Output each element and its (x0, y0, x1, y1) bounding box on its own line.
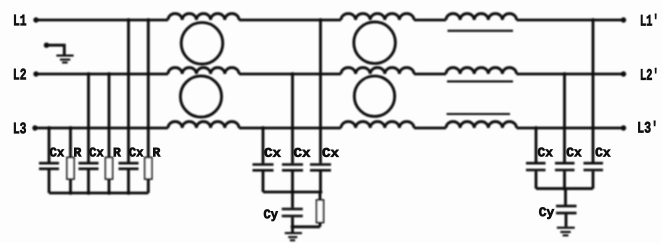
wire C4 dropper from L3 (262, 128, 265, 163)
junction dot right bus/Cy (563, 187, 567, 191)
junction dot L1/R3 (146, 18, 150, 22)
junction dot L2/C5 (291, 72, 295, 76)
wire R4 top stem (319, 192, 322, 200)
wire R1 dropper from L3 (69, 128, 72, 158)
capacitor C1 plates (39, 163, 59, 169)
wire C8 to right bus (563, 171, 566, 188)
resistor R1 body (67, 158, 74, 180)
wire L2 segment 2 (239, 73, 341, 76)
inductor choke1 L3 winding (168, 122, 239, 128)
junction dot mid ground (291, 225, 295, 229)
ground (input PE) bar 3 (62, 61, 68, 63)
capacitor C2 plates (79, 163, 99, 169)
wire L3 segment 4 (517, 127, 624, 130)
svg-text:Cx: Cx (293, 146, 310, 161)
wire C3 to bus (127, 170, 130, 193)
wire mid bus to Cy (291, 192, 294, 208)
wire C3 dropper from L1 (127, 20, 130, 162)
wire C4 to mid bus (262, 172, 265, 193)
junction dot bus/R1 (69, 191, 73, 195)
wire Cy to ground junction (middle) (291, 217, 294, 227)
ground (input PE) bar 1 (56, 55, 73, 57)
inductor L6 (L3 line) winding (446, 122, 517, 128)
ground (middle) bar 3 (290, 239, 295, 241)
wire C1 dropper from L3 (48, 128, 51, 162)
svg-text:L2': L2' (640, 67, 659, 85)
wire C2 to bus (87, 170, 90, 193)
resistor R3 body (145, 158, 152, 180)
wire C6 to mid bus (319, 172, 322, 193)
ground (input PE) dot (44, 43, 49, 48)
wire right bus (536, 187, 593, 190)
wire C7 dropper from L3 (535, 128, 538, 162)
wire C9 dropper from L1 (592, 20, 595, 162)
wire C6 dropper from L1 (319, 20, 322, 163)
wire C8 dropper from L2 (563, 74, 566, 162)
L1' terminal dot right (621, 17, 626, 22)
L2' terminal dot right (621, 71, 626, 76)
wire C5 dropper from L2 (291, 74, 294, 163)
wire mid bus (263, 191, 321, 194)
svg-text:R: R (152, 145, 160, 160)
ground (input PE) wire (47, 45, 65, 55)
svg-text:R: R (113, 145, 121, 160)
capacitor C5 plates (282, 165, 303, 171)
junction dot L1/C3 (127, 18, 131, 22)
wire L1 segment 3 (414, 19, 446, 22)
ground (right) bar 3 (563, 234, 569, 236)
junction dot L2/C8 (563, 72, 567, 76)
inductor choke2 L3 winding (341, 122, 414, 128)
svg-text:Cy: Cy (539, 205, 555, 220)
svg-text:L1': L1' (640, 13, 659, 31)
ground (middle) stem (291, 227, 294, 232)
junction dot bus/R2 (107, 191, 111, 195)
capacitor C8 plates (555, 163, 575, 170)
ground (right) bar 2 (560, 231, 570, 233)
L2 terminal dot left (33, 71, 38, 76)
wire L1 segment 2 (239, 19, 341, 22)
wire R4 bottom stem (319, 223, 322, 227)
wire right bus to Cy (564, 189, 567, 205)
inductor L4 (L1 line) winding (446, 14, 517, 20)
L1 terminal dot left (33, 17, 38, 22)
ground (right) bar 1 (557, 227, 575, 229)
svg-text:L3': L3' (637, 120, 658, 138)
wire C9 to right bus (592, 171, 595, 188)
capacitor Cy plates (right) (556, 206, 577, 213)
junction dot L3/C7 (534, 126, 538, 130)
svg-text:Cx: Cx (49, 145, 64, 160)
ground (middle) bar 2 (288, 236, 297, 238)
svg-text:Cx: Cx (264, 146, 281, 161)
svg-text:Cx: Cx (537, 145, 553, 160)
wire R2 dropper from L2 (108, 74, 111, 158)
junction dot L3/C4 (261, 126, 265, 130)
wire R2 to bus (108, 179, 111, 193)
wire C1 to bus (48, 170, 51, 193)
choke1 core circle top (181, 23, 223, 65)
svg-text:Cy: Cy (263, 207, 278, 222)
inductor choke2 L2 winding (341, 68, 414, 74)
wire left star bus (49, 192, 148, 195)
junction dot bus/C2 (87, 191, 91, 195)
wire L3 segment 1 (35, 127, 168, 130)
ground (input PE) bar 2 (60, 59, 70, 61)
wire L2 segment 4 (517, 73, 624, 76)
resistor R2 body (106, 158, 113, 180)
junction dot mid bus/Cy (291, 190, 295, 194)
svg-text:L2: L2 (13, 66, 27, 84)
inductor L5 core bar (447, 80, 513, 82)
wire C2 dropper from L2 (87, 74, 90, 162)
capacitor C3 plates (119, 163, 139, 169)
wire R4 to ground junction (293, 225, 321, 228)
choke1 core circle bottom (180, 76, 221, 117)
svg-text:Cx: Cx (566, 145, 582, 160)
wire L3 segment 3 (414, 127, 446, 130)
capacitor C7 plates (526, 163, 546, 170)
capacitor C9 plates (584, 163, 604, 170)
capacitor Cy plates (middle) (282, 209, 303, 216)
svg-text:L3: L3 (13, 120, 27, 138)
wire R1 to bus (69, 179, 72, 193)
wire C7 to right bus (535, 171, 538, 188)
svg-text:Cx: Cx (129, 145, 144, 160)
junction dot L3/C1 (47, 126, 51, 130)
wire L2 segment 1 (36, 73, 168, 76)
junction dot L1/C6 (319, 18, 323, 22)
wire L1 segment 4 (517, 19, 624, 22)
junction dot L2/C2 (87, 72, 91, 76)
junction dot L2/R2 (107, 72, 111, 76)
wire C5 to mid bus (291, 172, 294, 193)
svg-text:Cx: Cx (595, 145, 611, 160)
junction dot bus/C3 (127, 191, 131, 195)
wire R3 to bus (147, 179, 150, 193)
resistor R4 body (317, 200, 324, 223)
wire R3 dropper from L1 (147, 20, 150, 158)
inductor choke2 L1 winding (341, 14, 414, 20)
svg-text:Cx: Cx (322, 146, 339, 161)
choke2 core circle bottom (354, 76, 394, 116)
ground (middle) bar 1 (285, 232, 302, 234)
svg-text:Cx: Cx (89, 145, 104, 160)
inductor choke1 L2 winding (168, 68, 239, 74)
inductor L4 core bar (448, 30, 514, 32)
junction dot L3/R1 (69, 126, 73, 130)
svg-text:R: R (73, 145, 81, 160)
wire L3 segment 2 (239, 127, 341, 130)
wire L2 segment 3 (414, 73, 446, 76)
L3 terminal dot left (32, 125, 37, 130)
inductor L5 (L2 line) winding (446, 68, 517, 74)
inductor choke1 L1 winding (168, 14, 239, 20)
L3' terminal dot right (621, 125, 626, 130)
svg-text:L1: L1 (13, 12, 27, 30)
capacitor C6 plates (310, 165, 331, 171)
wire L1 segment 1 (36, 19, 168, 22)
capacitor C4 plates (253, 165, 274, 171)
wire Cy to ground (right) (565, 214, 568, 226)
junction dot mid bus/R4 (319, 190, 323, 194)
choke2 core circle top (354, 22, 396, 64)
inductor L6 core bar (447, 113, 510, 115)
junction dot L1/C9 (591, 18, 595, 22)
